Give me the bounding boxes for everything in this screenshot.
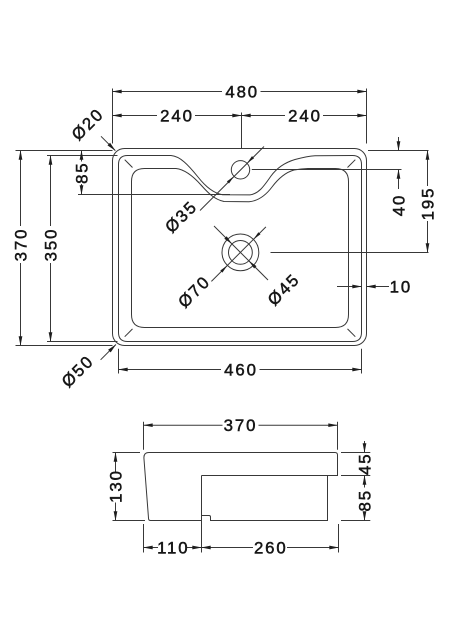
bowl left edge and extension <box>201 476 203 553</box>
extension line top outer right <box>368 150 429 152</box>
svg-text:350: 350 <box>41 228 60 262</box>
bowl edge with front wave <box>132 169 349 328</box>
extension line right middle <box>341 475 370 477</box>
extension line bottom-left rim <box>47 341 118 343</box>
svg-text:480: 480 <box>225 82 259 101</box>
rim inner edge with front wave <box>119 156 362 342</box>
svg-text:460: 460 <box>224 360 258 379</box>
extension line centre 240 <box>241 113 243 149</box>
extension line 460 right <box>361 349 363 374</box>
leader diameter 45 <box>214 226 268 280</box>
outer basin outline <box>113 149 367 346</box>
svg-text:Ø20: Ø20 <box>68 104 108 144</box>
dimension 110 <box>144 547 159 549</box>
extension line 370 right <box>337 422 339 450</box>
dimension 240 left <box>113 115 158 117</box>
svg-text:85: 85 <box>355 489 374 511</box>
extension line rim-top left <box>47 155 118 157</box>
extension line wave low point <box>78 194 230 196</box>
leader diameter 35 <box>200 147 264 211</box>
dimension 260 <box>202 547 254 549</box>
corner slope line top-right <box>348 160 356 168</box>
dimension 460 <box>119 369 222 371</box>
extension line 110 left <box>143 524 145 553</box>
svg-text:10: 10 <box>390 277 412 296</box>
dimension 130 <box>115 453 117 472</box>
svg-text:240: 240 <box>288 106 322 125</box>
extension line left bottom <box>113 520 146 522</box>
extension line 260 right <box>338 524 340 553</box>
dimension 350 <box>50 156 52 227</box>
svg-text:370: 370 <box>11 228 30 262</box>
svg-text:370: 370 <box>224 416 258 435</box>
svg-text:110: 110 <box>157 538 189 557</box>
extension line bottom-left outer <box>16 345 113 347</box>
dimension 480 <box>113 91 223 93</box>
svg-text:45: 45 <box>355 453 374 475</box>
svg-text:Ø70: Ø70 <box>174 272 214 312</box>
dimension 370 bottom view <box>144 424 223 426</box>
extension line right bottom <box>341 520 370 522</box>
profile outline <box>144 453 338 521</box>
extension line tap centre right <box>252 169 402 171</box>
dimension 195 <box>427 151 429 187</box>
corner slope line bottom-right <box>348 329 356 337</box>
extension line 480 right <box>366 89 368 144</box>
dimension 45 <box>364 441 366 453</box>
dimension 85 left <box>81 151 83 162</box>
extension line top-left <box>16 150 113 152</box>
svg-text:Ø50: Ø50 <box>58 351 98 391</box>
waste outer circle <box>222 234 259 271</box>
svg-text:Ø35: Ø35 <box>161 197 201 237</box>
svg-text:40: 40 <box>389 194 408 216</box>
waste inner circle <box>229 241 253 265</box>
svg-text:195: 195 <box>418 187 437 221</box>
extension line right top <box>341 452 370 454</box>
dimension 85 right <box>364 476 366 488</box>
dimension 10 <box>337 286 362 288</box>
corner slope line top-left <box>125 160 133 168</box>
leader diameter 50 <box>101 345 116 360</box>
svg-text:240: 240 <box>160 106 194 125</box>
extension line 370 left <box>143 422 145 450</box>
svg-text:130: 130 <box>106 469 125 503</box>
leader diameter 70 <box>211 227 266 282</box>
extension line 460 left <box>118 349 120 374</box>
tap hole circle <box>231 161 249 179</box>
extension line left top <box>113 452 141 454</box>
bowl underside edge <box>202 475 328 477</box>
svg-text:Ø45: Ø45 <box>264 270 304 310</box>
extension line 480 left <box>112 89 114 144</box>
svg-text:85: 85 <box>72 161 91 183</box>
svg-text:260: 260 <box>254 538 288 557</box>
leader diameter 20 <box>101 136 115 150</box>
corner slope line bottom-left <box>125 329 133 337</box>
dimension 370 left <box>20 151 22 227</box>
dimension 240 right <box>242 115 286 117</box>
dimension 40 <box>398 137 400 151</box>
extension line waste centre right <box>271 252 429 254</box>
